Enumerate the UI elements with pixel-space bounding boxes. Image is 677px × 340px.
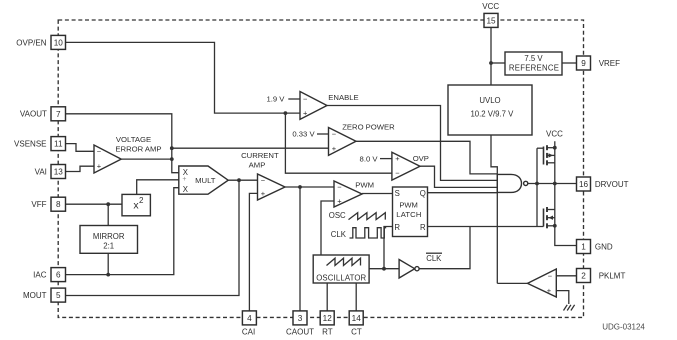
- svg-text:+: +: [97, 162, 102, 171]
- svg-text:+: +: [395, 154, 400, 163]
- svg-text:2:1: 2:1: [103, 242, 114, 251]
- svg-text:+: +: [261, 189, 266, 198]
- svg-text:IAC: IAC: [33, 271, 47, 280]
- svg-text:10: 10: [54, 38, 64, 47]
- svg-text:MULT: MULT: [195, 176, 216, 185]
- svg-text:VCC: VCC: [546, 130, 563, 139]
- svg-text:ZERO POWER: ZERO POWER: [342, 123, 395, 132]
- svg-text:ERROR AMP: ERROR AMP: [115, 144, 161, 153]
- svg-text:+: +: [547, 286, 552, 295]
- svg-text:11: 11: [54, 140, 63, 149]
- svg-text:OSC: OSC: [329, 211, 346, 220]
- svg-text:−: −: [261, 176, 266, 185]
- svg-text:S: S: [395, 189, 400, 198]
- svg-text:PKLMT: PKLMT: [599, 271, 626, 280]
- svg-text:10.2 V/9.7 V: 10.2 V/9.7 V: [470, 109, 514, 118]
- svg-text:CAI: CAI: [242, 327, 255, 336]
- svg-text:8.0 V: 8.0 V: [360, 154, 379, 163]
- svg-text:1.9 V: 1.9 V: [266, 95, 285, 104]
- svg-text:−: −: [337, 183, 342, 192]
- svg-text:CLK: CLK: [331, 230, 347, 239]
- svg-text:−: −: [395, 168, 400, 177]
- svg-text:VFF: VFF: [31, 200, 46, 209]
- svg-text:7.5 V: 7.5 V: [524, 54, 543, 63]
- svg-text:1: 1: [581, 242, 586, 251]
- svg-text:0.33 V: 0.33 V: [292, 130, 315, 139]
- svg-text:CAOUT: CAOUT: [286, 327, 314, 336]
- svg-text:VCC: VCC: [482, 2, 499, 11]
- svg-text:X: X: [183, 185, 189, 194]
- svg-text:15: 15: [486, 16, 496, 25]
- svg-text:5: 5: [56, 291, 61, 300]
- svg-text:6: 6: [56, 271, 61, 280]
- svg-text:VSENSE: VSENSE: [14, 140, 46, 149]
- svg-text:2: 2: [581, 271, 586, 280]
- svg-text:12: 12: [323, 314, 333, 323]
- svg-text:MIRROR: MIRROR: [93, 232, 125, 241]
- svg-text:4: 4: [247, 314, 252, 323]
- svg-text:−: −: [97, 147, 102, 156]
- svg-text:ENABLE: ENABLE: [328, 93, 358, 102]
- svg-text:CT: CT: [351, 327, 362, 336]
- svg-text:GND: GND: [595, 242, 613, 251]
- svg-text:CURRENT: CURRENT: [241, 151, 279, 160]
- svg-text:8: 8: [56, 200, 61, 209]
- svg-text:16: 16: [579, 180, 589, 189]
- svg-text:R: R: [394, 223, 400, 232]
- svg-text:UDG-03124: UDG-03124: [602, 323, 645, 332]
- svg-text:+: +: [332, 144, 337, 153]
- svg-text:+: +: [182, 176, 186, 183]
- svg-text:2: 2: [139, 196, 144, 205]
- svg-text:R: R: [420, 223, 426, 232]
- svg-text:VREF: VREF: [599, 59, 620, 68]
- svg-text:REFERENCE: REFERENCE: [509, 63, 559, 72]
- svg-text:UVLO: UVLO: [479, 96, 500, 105]
- svg-text:9: 9: [581, 59, 586, 68]
- svg-text:PWM: PWM: [355, 180, 374, 189]
- svg-text:LATCH: LATCH: [396, 210, 421, 219]
- svg-text:+: +: [337, 197, 342, 206]
- svg-text:OVP: OVP: [413, 154, 429, 163]
- svg-text:+: +: [303, 109, 308, 118]
- svg-text:7: 7: [56, 110, 61, 119]
- svg-text:AMP: AMP: [249, 160, 266, 169]
- svg-text:−: −: [303, 95, 308, 104]
- svg-text:13: 13: [54, 167, 64, 176]
- svg-text:RT: RT: [322, 327, 333, 336]
- svg-text:MOUT: MOUT: [23, 291, 47, 300]
- svg-text:PWM: PWM: [399, 201, 418, 210]
- svg-text:CLK: CLK: [426, 254, 442, 263]
- svg-text:OSCILLATOR: OSCILLATOR: [316, 273, 366, 282]
- svg-text:−: −: [332, 130, 337, 139]
- svg-text:3: 3: [298, 314, 303, 323]
- svg-text:−: −: [548, 271, 553, 280]
- svg-text:OVP/EN: OVP/EN: [16, 38, 46, 47]
- svg-text:VOLTAGE: VOLTAGE: [116, 135, 151, 144]
- svg-text:14: 14: [352, 314, 362, 323]
- svg-text:DRVOUT: DRVOUT: [595, 180, 629, 189]
- svg-text:VAOUT: VAOUT: [20, 110, 47, 119]
- svg-text:Q: Q: [420, 189, 426, 198]
- svg-text:VAI: VAI: [35, 167, 47, 176]
